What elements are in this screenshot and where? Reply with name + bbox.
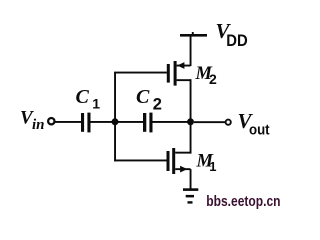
svg-text:C: C	[136, 86, 150, 108]
wire node A up to M2 gate	[114, 72, 167, 122]
svg-text:1: 1	[92, 95, 100, 111]
label Vin	[20, 108, 45, 133]
capacitor C2	[143, 113, 153, 133]
wire node A down to M1 gate	[114, 122, 167, 161]
wire node B to output terminal	[194, 121, 225, 123]
wire Vin to C1	[55, 121, 82, 123]
label VDD	[216, 19, 248, 50]
label M2	[195, 64, 218, 87]
svg-text:in: in	[32, 117, 45, 133]
label M1	[196, 152, 217, 175]
transistor M1 gate bar	[167, 151, 170, 171]
transistor M1 channel bar	[172, 148, 175, 174]
transistor M2 source wire with arrow	[177, 36, 192, 69]
svg-text:1: 1	[209, 159, 216, 174]
wire C2 to node B	[153, 121, 188, 123]
label C1	[76, 86, 101, 112]
svg-text:C: C	[76, 86, 90, 108]
capacitor C1	[81, 113, 91, 133]
ground symbol	[183, 188, 198, 203]
wire C1 to node A	[91, 121, 113, 123]
svg-text:bbs.eetop.cn: bbs.eetop.cn	[206, 193, 280, 210]
node Vout output terminal	[226, 120, 231, 125]
node Vin input terminal	[48, 118, 54, 124]
node A junction	[112, 118, 119, 125]
svg-text:out: out	[249, 122, 270, 138]
svg-text:2: 2	[209, 71, 217, 87]
label C2	[136, 86, 162, 114]
transistor M2 gate bar	[167, 64, 170, 83]
svg-text:DD: DD	[226, 32, 247, 50]
transistor M2 drain wire to node B	[177, 79, 192, 122]
transistor M2 channel bar	[174, 61, 177, 86]
transistor M1 drain wire to node B	[175, 122, 191, 154]
power VDD bar	[180, 32, 207, 37]
wire node A to C2	[118, 121, 143, 123]
label Vout	[238, 109, 270, 139]
svg-text:2: 2	[153, 95, 162, 113]
node B output junction	[187, 118, 194, 125]
transistor M1 source wire with arrow	[175, 166, 191, 189]
